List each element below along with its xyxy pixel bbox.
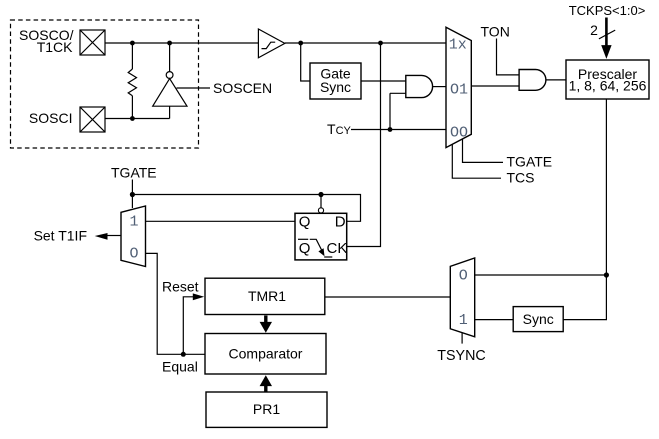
svg-text:SOSCI: SOSCI [29,110,73,126]
svg-text:Comparator: Comparator [229,346,303,362]
svg-text:O: O [130,246,139,263]
svg-text:TGATE: TGATE [507,154,553,170]
svg-text:T1CK: T1CK [37,39,73,55]
svg-text:Reset: Reset [162,279,199,295]
svg-text:2: 2 [590,22,598,38]
svg-text:Equal: Equal [162,359,198,375]
svg-text:Sync: Sync [523,311,554,327]
svg-text:OO: OO [450,125,468,142]
svg-text:TMR1: TMR1 [248,288,286,304]
svg-text:SOSCEN: SOSCEN [213,80,272,96]
svg-text:TCS: TCS [507,170,535,186]
svg-text:O1: O1 [450,82,468,99]
svg-text:1: 1 [130,214,139,231]
svg-text:Set T1IF: Set T1IF [34,228,87,244]
svg-text:TSYNC: TSYNC [437,348,485,364]
svg-text:Sync: Sync [320,79,351,95]
svg-text:Q: Q [299,240,311,257]
svg-text:PR1: PR1 [253,401,280,417]
svg-text:TON: TON [481,24,510,40]
svg-text:1x: 1x [449,37,467,54]
svg-text:O: O [459,268,468,285]
svg-text:1, 8, 64, 256: 1, 8, 64, 256 [569,78,647,94]
svg-text:TGATE: TGATE [111,165,157,181]
svg-text:TCKPS<1:0>: TCKPS<1:0> [569,3,646,18]
svg-text:D: D [335,214,346,231]
svg-text:CK: CK [327,240,348,257]
svg-text:Q: Q [299,214,311,231]
svg-text:1: 1 [459,312,468,329]
